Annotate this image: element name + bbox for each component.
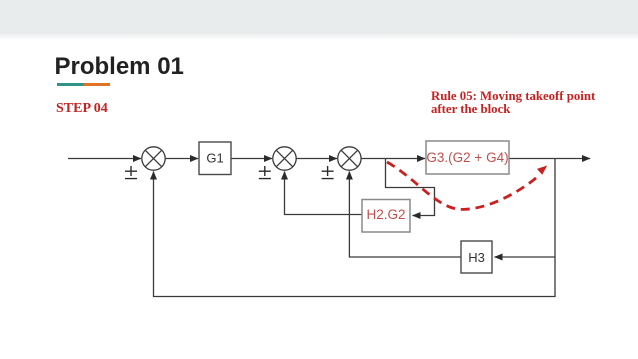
summing junction S1 xyxy=(142,147,165,170)
svg-text:G3.(G2 + G4): G3.(G2 + G4) xyxy=(426,150,508,165)
red dashed rule-05 curve xyxy=(387,162,537,209)
title underline teal/orange xyxy=(57,83,110,86)
summing junction S2 xyxy=(273,147,296,170)
block H2.G2 xyxy=(362,200,410,233)
block G1 xyxy=(199,142,231,175)
plus-minus sign at S1 xyxy=(125,166,137,179)
wire H2.G2 output to sum2 xyxy=(285,172,363,215)
wire junction down to H3 input xyxy=(495,159,556,258)
wire feedback bottom loop to sum1 xyxy=(154,172,556,297)
wire sum1 to G1 xyxy=(165,158,198,160)
svg-text:H2.G2: H2.G2 xyxy=(366,207,405,222)
title Problem 01 xyxy=(55,53,184,81)
block G3.(G2 + G4) xyxy=(426,141,509,174)
block H3 xyxy=(461,241,492,273)
STEP 04 label xyxy=(56,101,108,117)
svg-text:H3: H3 xyxy=(468,250,485,265)
svg-text:G1: G1 xyxy=(206,151,223,166)
red curve arrowhead xyxy=(537,166,547,175)
plus-minus sign at S2 xyxy=(259,166,271,179)
wire G1 to sum2 xyxy=(231,158,272,160)
wire takeoff down-right into H2.G2 xyxy=(386,159,435,216)
wire input to sum1 xyxy=(68,158,141,160)
wire G3 output to right xyxy=(509,158,590,160)
wire sum2 to sum3 xyxy=(296,158,337,160)
wire H3 output to sum3 xyxy=(349,172,461,258)
plus-minus sign at S3 xyxy=(322,166,334,179)
wire sum3 to G3 block xyxy=(361,158,425,160)
Rule 05 note xyxy=(431,90,599,117)
summing junction S3 xyxy=(338,147,361,170)
top gray band xyxy=(0,0,638,33)
